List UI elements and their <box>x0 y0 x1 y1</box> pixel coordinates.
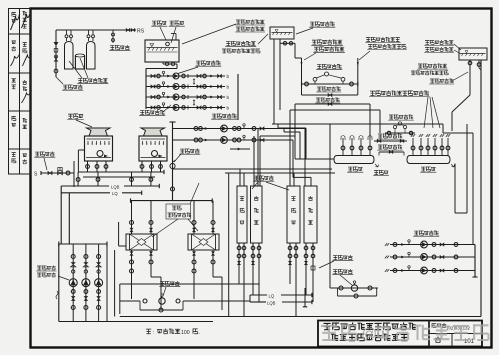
svg-text:b: b <box>227 84 230 89</box>
svg-text:b: b <box>227 74 230 79</box>
svg-text:b: b <box>227 105 230 110</box>
svg-text:b: b <box>227 95 230 100</box>
svg-text:100: 100 <box>181 330 190 336</box>
svg-text:LQB: LQB <box>111 184 120 189</box>
svg-text:LQB: LQB <box>267 300 276 305</box>
svg-text:@: @ <box>361 326 377 343</box>
svg-text::: : <box>153 330 154 336</box>
svg-text:LQ: LQ <box>269 293 275 298</box>
svg-text:.: . <box>199 330 200 336</box>
svg-text:LQ: LQ <box>112 191 118 196</box>
svg-text:RS: RS <box>137 29 145 35</box>
